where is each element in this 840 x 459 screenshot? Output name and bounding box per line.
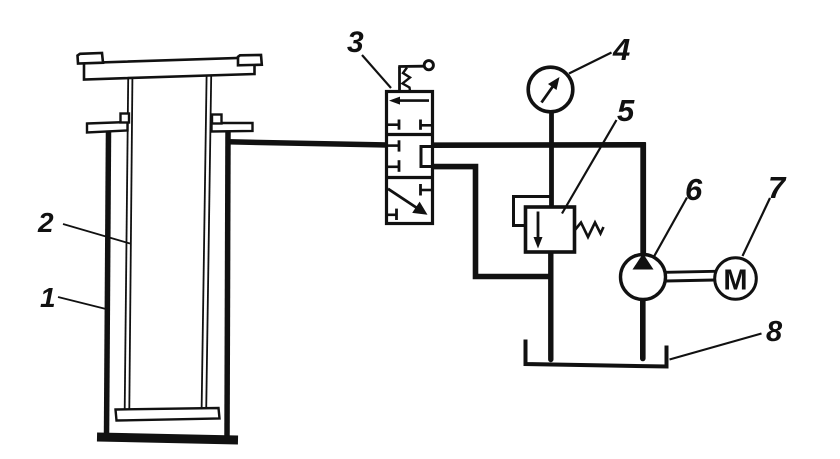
valve 3 bottom-section diagonal arrow — [388, 189, 428, 215]
gland collar left — [87, 114, 129, 133]
cylinder 1 outer right wall — [227, 132, 228, 438]
relief valve 5 pilot line — [514, 197, 552, 226]
label 2 — [38, 209, 54, 237]
gland collar right — [212, 115, 253, 132]
valve 3 bottom-section right port T — [421, 184, 432, 196]
relief valve 5 body — [526, 207, 575, 252]
wire: pump suction down to tank — [640, 300, 646, 359]
label 6 — [685, 174, 702, 205]
valve 3 top-section left port T — [388, 120, 399, 130]
label 5 — [617, 95, 634, 126]
leader line 8 — [670, 334, 762, 360]
valve 3 mid-section right bypass notch — [421, 147, 432, 167]
ram top plate — [84, 58, 255, 80]
piston plate — [116, 408, 220, 421]
relief valve 5 spring — [575, 223, 604, 238]
valve 3 return spring — [403, 68, 411, 92]
leader line 2 — [63, 224, 130, 244]
valve 3 mid-section left port T upper — [388, 140, 399, 151]
ram top plate right tab — [238, 55, 262, 65]
valve 3 mid-section left port T lower — [388, 160, 399, 172]
wire: gauge stem down to relief valve — [549, 111, 554, 207]
wire: pump riser vertical — [640, 143, 646, 256]
gauge 4 — [528, 67, 573, 112]
leader line 6 — [654, 198, 687, 257]
label 4 — [613, 34, 630, 65]
valve 3 top-section right port T — [421, 120, 432, 130]
ram 2 left wall (double line) — [125, 79, 133, 410]
wire: valve lower port to right (pipe C) — [433, 167, 552, 277]
valve 3 lever actuator — [398, 61, 433, 91]
cylinder 1 outer left wall — [107, 131, 109, 438]
relief valve 5 flow arrow — [534, 212, 543, 249]
wire: relief valve down to tank — [548, 252, 553, 360]
ram 2 right wall (double line) — [202, 76, 212, 410]
ram top plate left tab — [78, 53, 104, 64]
svg-text:M: M — [723, 265, 747, 297]
valve 3 body — [387, 92, 433, 224]
motor 7 letter M — [723, 265, 747, 297]
wire: cylinder to valve (pipe A) — [228, 142, 387, 145]
pump 6 — [621, 254, 666, 300]
cylinder base plate — [97, 437, 238, 440]
label 3 — [347, 28, 364, 58]
leader line 1 — [58, 297, 108, 310]
motor 7 — [715, 258, 757, 300]
leader line 3 — [362, 55, 391, 88]
tank 8 — [526, 340, 667, 367]
leader line 7 — [743, 198, 771, 256]
label 8 — [766, 318, 782, 347]
label 7 — [768, 172, 785, 203]
leader line 4 — [569, 53, 612, 74]
leader line 5 — [562, 120, 617, 214]
valve 3 top-section left arrow — [389, 97, 429, 105]
wire: valve to pump riser (pipe B horizontal) — [433, 142, 646, 148]
motor shaft coupling — [666, 271, 716, 281]
label 1 — [40, 284, 56, 312]
valve 3 bottom-section left port T — [388, 209, 397, 220]
